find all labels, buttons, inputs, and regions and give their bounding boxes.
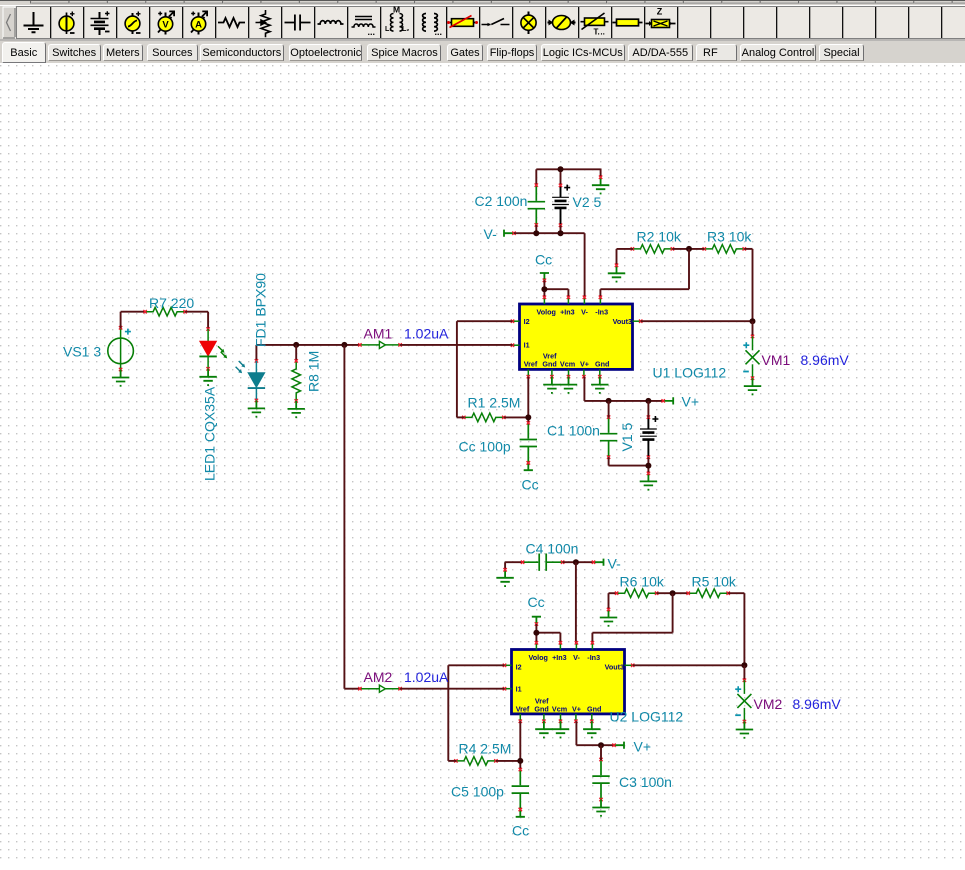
toolbar icon motor [548, 16, 576, 30]
ground under U1 Vcm pin [560, 377, 577, 394]
svg-text:R5 10k: R5 10k [692, 574, 737, 590]
svg-text:Gnd: Gnd [542, 360, 556, 369]
svg-text:T. ..: T. .. [594, 28, 605, 37]
voltmeter VM2 [737, 665, 751, 723]
wire R7 to LED1 [185, 312, 208, 330]
ground under FD1 [248, 400, 265, 417]
ground top right of V2 [592, 176, 609, 195]
svg-text:Vout3: Vout3 [605, 662, 624, 671]
svg-text:I2: I2 [524, 317, 530, 326]
label R8 1M [306, 351, 322, 392]
label V- lower [608, 556, 622, 572]
toolbar icon voltmeter [158, 11, 174, 34]
label R3 10k [707, 229, 752, 245]
wire Vref pin down lower [519, 721, 521, 770]
junction R1/Vref/Cc [525, 414, 531, 420]
svg-text:VM1: VM1 [762, 352, 791, 368]
label Cc upper [535, 252, 552, 268]
toolbar icon voltage generator [125, 12, 140, 35]
resistor R3 [703, 245, 746, 254]
svg-text:...: ... [368, 27, 376, 37]
label LED1 CQX35A [202, 386, 218, 481]
LED1 emission arrows [218, 346, 227, 358]
toolbar icon thermistor [581, 13, 609, 37]
wire VS1 to R7 [121, 312, 146, 329]
plus mark VS1 [125, 329, 131, 335]
toolbar icon ground [24, 12, 44, 32]
svg-text:R7 220: R7 220 [149, 295, 194, 311]
svg-text:C5 100p: C5 100p [451, 784, 504, 800]
junction R2/R3 [686, 246, 692, 252]
label VS1 3 [63, 344, 101, 360]
svg-text:V-: V- [573, 653, 580, 662]
toolbar icon ammeter [191, 11, 207, 34]
svg-text:FD1 BPX90: FD1 BPX90 [253, 273, 269, 347]
label R5 10k [692, 574, 737, 590]
port V+ upper [662, 397, 674, 404]
wire Cc lower to pins [536, 624, 560, 643]
svg-text:V-: V- [608, 556, 622, 572]
svg-text:Volog: Volog [536, 308, 555, 317]
label Cc lower-top [528, 594, 545, 610]
ground under R2 left [608, 264, 625, 283]
label V1 5 [619, 422, 635, 451]
wire C4 to V- port lower [563, 561, 594, 563]
voltage source VS1 [108, 326, 134, 371]
label VM1 [762, 352, 791, 368]
toolbar icon potentiometer [256, 10, 271, 37]
ground under U2 Gnd pin b [583, 721, 600, 738]
wire V- rail [514, 233, 585, 297]
wire R6-R5 [657, 592, 689, 594]
junction main node split [341, 342, 347, 348]
battery V1 [640, 401, 657, 459]
capacitor C3 [592, 745, 609, 801]
svg-text:L₂: L₂ [402, 26, 409, 33]
svg-text:Vcm: Vcm [560, 360, 575, 369]
junction R4/Vref/C5 [517, 758, 523, 764]
ground under V1 [640, 472, 657, 491]
resistor R4 [454, 757, 497, 766]
junction V+ at C1 [606, 398, 612, 404]
svg-text:I2: I2 [516, 662, 522, 671]
svg-text:V: V [162, 20, 169, 31]
wire C1/V1 bottoms [609, 457, 649, 474]
svg-text:U2 LOG112: U2 LOG112 [610, 709, 684, 725]
label FD1 BPX90 [253, 273, 269, 347]
svg-text:L₁: L₁ [385, 26, 392, 33]
label AM1 value 1.02uA [404, 325, 449, 341]
wire input node to FD1 [255, 345, 257, 362]
label AM1 [364, 325, 393, 341]
svg-text:Cc: Cc [522, 477, 539, 493]
port Cc bottom upper-circuit [524, 461, 533, 470]
svg-text:U1 LOG112: U1 LOG112 [653, 365, 727, 381]
capacitor C5 100p [512, 768, 529, 811]
toolbar icon inductor with core [352, 17, 376, 38]
svg-text:VS1 3: VS1 3 [63, 344, 101, 360]
LED LED1 [199, 327, 216, 370]
wire R2-R3 junction [672, 248, 704, 250]
svg-text:LED1 CQX35A: LED1 CQX35A [202, 386, 218, 481]
wire R4 right to Vref node lower [496, 760, 520, 762]
label C5 100p [451, 784, 504, 800]
wire R6/R5 node to -In3 lower [592, 593, 672, 643]
wire AM2 to I1 pin lower [400, 688, 504, 690]
junction Cc lower [533, 630, 539, 636]
wire AM1 to I1 pin [400, 344, 512, 346]
label R2 10k [637, 229, 682, 245]
ground under U1 Gnd pin a [543, 377, 560, 394]
junction main node R8 [293, 342, 299, 348]
port Cc lower-top [532, 617, 541, 626]
toolbar icon switch [482, 19, 510, 27]
wire C2/V2 bottoms to V- rail [536, 225, 560, 234]
toolbar icon transformer [423, 14, 442, 38]
svg-text:-In3: -In3 [587, 653, 600, 662]
svg-text:C1 100n: C1 100n [547, 423, 600, 439]
wire Vout3 to VM1 node [641, 320, 753, 322]
svg-text:V-: V- [484, 226, 498, 242]
label U2 LOG112 [610, 709, 684, 725]
svg-text:R4 2.5M: R4 2.5M [459, 741, 512, 757]
wire R3 right to Vout3 node [744, 249, 752, 321]
svg-text:R6 10k: R6 10k [620, 574, 665, 590]
svg-text:Vref: Vref [516, 705, 530, 714]
label R7 220 [149, 295, 194, 311]
U1 pin stubs [511, 296, 643, 379]
label R1 2.5M [468, 395, 521, 411]
U2 pin stubs [503, 641, 635, 723]
resistor R6 [615, 589, 658, 598]
label VM2 value 8.96mV [793, 696, 842, 712]
resistor R8 [292, 359, 301, 402]
toolbar icon capacitor [285, 15, 311, 31]
wire I2 feedback [457, 321, 513, 417]
svg-text:V+: V+ [572, 705, 581, 714]
svg-text:V+: V+ [634, 739, 652, 755]
capacitor Cc 100p [520, 421, 537, 464]
label Cc 100p [459, 439, 511, 455]
svg-text:R8 1M: R8 1M [306, 351, 322, 392]
minus mark VM2 [735, 714, 741, 716]
plus mark V1 [652, 416, 658, 422]
label AM2 [364, 669, 393, 685]
port Cc bottom lower-circuit [516, 808, 525, 817]
junction top rail at V2 [558, 166, 564, 172]
ammeter AM1 [358, 341, 402, 348]
port V+ lower [612, 742, 624, 749]
junction Cc node [541, 286, 547, 292]
U1 pin labels [524, 308, 632, 369]
svg-text:Vcm: Vcm [552, 705, 567, 714]
label VM2 [754, 696, 783, 712]
wire V- lower to pin [575, 562, 577, 643]
resistor R2 [631, 245, 674, 254]
svg-text:+In3: +In3 [560, 308, 575, 317]
junction Vout3/VM1 [750, 318, 756, 324]
svg-text:I1: I1 [524, 340, 530, 349]
wire R2/R3 node to -In3 [600, 249, 689, 298]
plus mark VM2 [735, 686, 741, 692]
label AM2 value 1.02uA [404, 669, 449, 685]
svg-text:Gnd: Gnd [587, 705, 601, 714]
resistor R5 [687, 589, 730, 598]
svg-text:A: A [195, 20, 202, 31]
wire R1 left [457, 416, 465, 418]
toolbar icon relay [613, 19, 643, 26]
junction V- rail at C2 [533, 230, 539, 236]
toolbar icon resistor [218, 18, 245, 27]
svg-text:...: ... [435, 27, 443, 37]
svg-text:V-: V- [581, 308, 588, 317]
label C2 100n [475, 193, 528, 209]
svg-text:8.96mV: 8.96mV [793, 696, 842, 712]
svg-text:VM2: VM2 [754, 696, 783, 712]
svg-text:Cc: Cc [512, 823, 529, 839]
svg-text:Cc 100p: Cc 100p [459, 439, 511, 455]
port V- upper [504, 230, 516, 237]
wire R4 left [448, 760, 456, 762]
voltmeter VM1 [746, 321, 760, 380]
junction Vout3/VM2 [741, 662, 747, 668]
toolbar icon impedance Z [646, 7, 676, 28]
wire R2 left to ground [617, 249, 634, 266]
svg-text:+In3: +In3 [552, 653, 567, 662]
op-amp U1 LOG112 body [520, 304, 633, 369]
svg-text:1.02uA: 1.02uA [404, 669, 449, 685]
label V- upper [484, 226, 498, 242]
svg-text:AM1: AM1 [364, 325, 393, 341]
ground under U1 Gnd pin b [591, 377, 608, 394]
label V+ lower [634, 739, 652, 755]
svg-text:Gnd: Gnd [534, 705, 548, 714]
wire R6 left to ground [609, 593, 618, 610]
wire Cc to Volog and +In3 [544, 280, 568, 298]
ground under U2 Gnd pin a [535, 721, 552, 738]
resistor R7 [143, 307, 186, 316]
wire R8 drop [295, 345, 297, 362]
svg-text:1.02uA: 1.02uA [404, 325, 449, 341]
svg-text:I1: I1 [516, 684, 522, 693]
svg-text:Vref: Vref [524, 360, 538, 369]
photodiode FD1 [248, 359, 265, 402]
svg-text:8.96mV: 8.96mV [801, 352, 850, 368]
capacitor C4 [521, 554, 564, 571]
svg-text:Gnd: Gnd [595, 360, 609, 369]
U2 pin labels [516, 653, 624, 714]
ground under R8 [288, 401, 305, 418]
svg-text:V+: V+ [580, 360, 589, 369]
toolbar icon lamp [521, 12, 536, 35]
plus mark VM1 [743, 342, 749, 348]
svg-text:Z: Z [657, 7, 663, 17]
port Cc upper [540, 273, 549, 282]
port V- lower [592, 559, 604, 566]
ground under U2 Vcm pin [552, 721, 569, 738]
junction V1 bottom [645, 463, 651, 469]
label U1 LOG112 [653, 365, 727, 381]
wire R5 right down to Vout3 node [728, 593, 744, 665]
svg-text:V2 5: V2 5 [573, 194, 602, 210]
toolbar icon coupled inductors [385, 5, 409, 34]
svg-text:V1 5: V1 5 [619, 422, 635, 451]
label Cc below port lower [512, 823, 529, 839]
wire C4 left to ground [505, 562, 523, 570]
ammeter AM2 [358, 685, 402, 692]
label R6 10k [620, 574, 665, 590]
wire Vref pin down [527, 377, 529, 424]
plus mark V2 [564, 185, 570, 191]
svg-text:-In3: -In3 [595, 308, 608, 317]
svg-text:C2 100n: C2 100n [475, 193, 528, 209]
svg-text:Vout3: Vout3 [613, 317, 632, 326]
junction V+ lower at C3 [598, 742, 604, 748]
svg-text:Cc: Cc [528, 594, 545, 610]
ground under C4 left [496, 568, 513, 587]
ground under VM1 [744, 378, 761, 395]
FD1 light arrows [236, 361, 246, 373]
battery V2 [552, 184, 569, 227]
svg-text:R1 2.5M: R1 2.5M [468, 395, 521, 411]
wire Vout3 lower to VM2 node [633, 664, 745, 666]
ground under R6 left [600, 608, 617, 627]
junction V- lower [573, 559, 579, 565]
label V2 5 [573, 194, 602, 210]
wire V+ rail upper [584, 377, 663, 401]
minus mark VM1 [743, 371, 749, 373]
wire top rail V2/C2/ground [536, 169, 600, 187]
capacitor C1 [600, 401, 617, 459]
svg-text:R3 10k: R3 10k [707, 229, 752, 245]
label VM1 value 8.96mV [801, 352, 850, 368]
label C3 100n [619, 774, 672, 790]
svg-text:C3 100n: C3 100n [619, 774, 672, 790]
label V+ upper [682, 394, 700, 410]
wire I2 feedback lower [448, 665, 504, 761]
wire main vertical corner to AM2 [344, 688, 360, 690]
capacitor C2 [528, 183, 545, 226]
label Cc below port [522, 477, 539, 493]
wire main input node to I1 [256, 344, 360, 346]
junction R6/R5 [670, 590, 676, 596]
junction V- rail at V2 [558, 230, 564, 236]
svg-text:V+: V+ [682, 394, 700, 410]
label C1 100n [547, 423, 600, 439]
wire main vertical to lower circuit [343, 345, 345, 689]
svg-text:M: M [393, 5, 400, 15]
op-amp U2 LOG112 body [512, 650, 625, 714]
ground under VS1 [112, 370, 129, 387]
toolbar icon inductor [318, 21, 344, 24]
svg-text:R2 10k: R2 10k [637, 229, 682, 245]
svg-text:Cc: Cc [535, 252, 552, 268]
svg-text:C4 100n: C4 100n [526, 541, 579, 557]
toolbar icon voltage source [59, 12, 74, 35]
junction V+ at V1 [645, 398, 651, 404]
toolbar icon fuse [447, 16, 478, 28]
svg-text:AM2: AM2 [364, 669, 393, 685]
wire V+ rail lower [576, 721, 614, 745]
toolbar icon battery [91, 11, 110, 35]
label R4 2.5M [459, 741, 512, 757]
wire R1 right to Vref node [504, 416, 529, 418]
resistor R1 [462, 413, 505, 422]
ground under VM2 [736, 722, 753, 739]
ground under C3 [592, 800, 609, 817]
label C4 100n [526, 541, 579, 557]
ground under LED1 [199, 369, 216, 386]
svg-text:Volog: Volog [528, 653, 547, 662]
